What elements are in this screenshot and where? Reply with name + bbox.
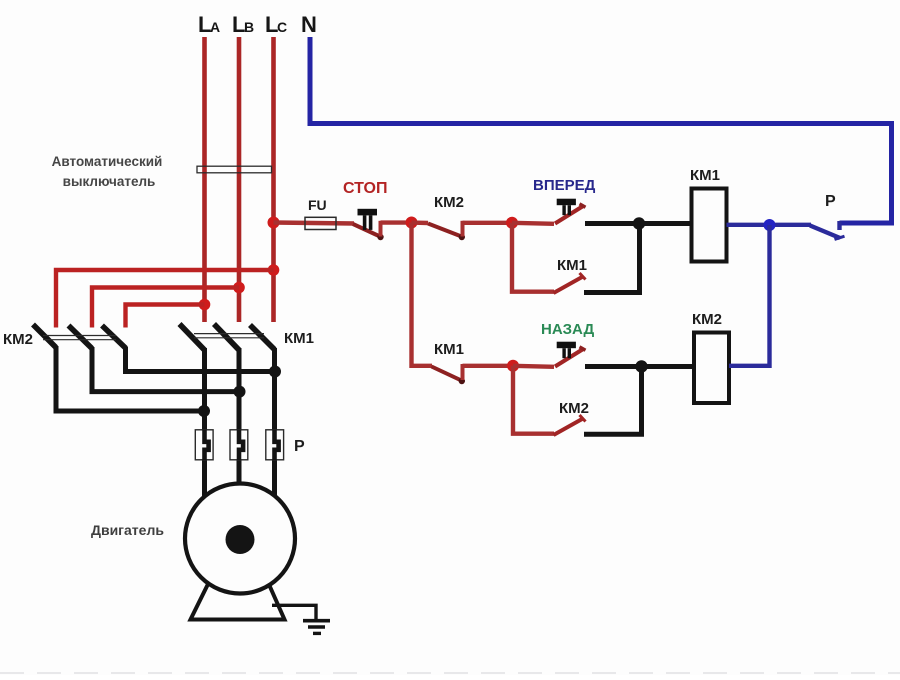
wire black vertical to node F — [639, 367, 644, 435]
wire СТОП to node A — [381, 220, 413, 224]
wire control feed — [274, 223, 355, 224]
wire bus1 Lc to КМ2 pole1 — [56, 270, 274, 328]
svg-text:ВПЕРЕД: ВПЕРЕД — [533, 177, 596, 194]
wire НАЗАД to КМ2 coil — [585, 364, 696, 369]
wire КМ2 pole2 output — [92, 347, 240, 392]
svg-text:СТОП: СТОП — [343, 180, 387, 197]
wire phase La — [202, 37, 207, 322]
contact КМ1 holding tip tick — [580, 273, 586, 280]
contact КМ1 NC blade — [432, 367, 462, 381]
wire motor line 1 — [202, 348, 207, 500]
label Lc — [265, 12, 287, 37]
wire drop node C to КМ2 holding — [513, 366, 554, 434]
contactor КМ1 pole1 blade — [180, 324, 205, 350]
svg-text:Двигатель: Двигатель — [91, 522, 164, 538]
node bus1 on Lc — [268, 264, 280, 276]
fuse FU — [305, 217, 336, 229]
svg-text:B: B — [244, 19, 254, 35]
node F (black junction) — [635, 360, 647, 372]
wire drop node A to НАЗАД branch — [412, 223, 433, 366]
svg-text:A: A — [210, 19, 220, 35]
ground wire — [272, 605, 316, 620]
contactor КМ1 pole2 blade — [214, 324, 239, 350]
wire bus2 Lb to КМ2 pole2 — [92, 288, 239, 328]
coil КМ1 — [692, 189, 727, 262]
button ВПЕРЕД plunger — [557, 199, 576, 216]
svg-text:P: P — [825, 193, 836, 210]
node Lc-control junction — [268, 217, 280, 229]
button СТОП (NC) blade — [353, 224, 380, 237]
svg-text:Автоматический: Автоматический — [52, 154, 163, 169]
coil КМ2 — [694, 333, 729, 404]
contact КМ1 holding (NO) blade — [554, 277, 584, 294]
wire motor line 2 — [237, 348, 242, 490]
node C — [507, 360, 519, 372]
motor M body — [185, 484, 295, 594]
button НАЗАД plunger — [557, 342, 576, 359]
node bus2 on Lb — [233, 282, 245, 294]
button СТОП plunger — [358, 209, 378, 230]
contact КМ2 holding tip tick — [580, 415, 586, 422]
contactor КМ2 linkage — [43, 336, 116, 340]
contact P tip tick — [835, 236, 845, 239]
motor M rotor dot — [226, 525, 255, 554]
svg-text:КМ2: КМ2 — [3, 331, 33, 348]
svg-text:C: C — [277, 19, 287, 35]
contact КМ2 holding (NO) blade — [554, 419, 584, 436]
label Lb — [232, 12, 254, 37]
wire neutral N — [310, 37, 892, 223]
svg-text:КМ2: КМ2 — [559, 400, 589, 417]
node B — [506, 217, 518, 229]
wire black vertical to node D — [637, 224, 642, 293]
wire КМ1 NC to node C — [463, 364, 515, 368]
button НАЗАД blade tip tick — [580, 347, 586, 350]
thermal relay P heater 2 — [230, 430, 248, 460]
contact КМ2 NC wire — [412, 220, 429, 225]
node motor line2 x КМ2 out — [234, 386, 246, 398]
wire КМ1 coil to node E (blue) — [727, 223, 812, 227]
svg-text:FU: FU — [308, 197, 327, 213]
contact КМ2 NC blade — [428, 224, 462, 237]
button ВПЕРЕД blade tip tick — [580, 204, 586, 207]
bottom faint dashed line — [0, 672, 900, 674]
svg-text:КМ1: КМ1 — [557, 257, 587, 274]
svg-text:N: N — [301, 12, 317, 37]
wire КМ2 holding black — [584, 432, 644, 437]
contact КМ2 NC tip — [459, 234, 465, 240]
button ВПЕРЕД (NO) blade — [555, 206, 584, 224]
wire motor line 3 — [272, 348, 277, 500]
wire КМ2 coil blue up — [729, 225, 770, 366]
button СТОП terminal stub — [379, 221, 383, 237]
svg-text:P: P — [294, 438, 305, 455]
wire КМ2 to node B — [463, 221, 514, 225]
contactor КМ1 linkage — [194, 334, 264, 338]
svg-text:КМ1: КМ1 — [434, 341, 464, 358]
svg-text:КМ2: КМ2 — [692, 311, 722, 328]
wire КМ2 pole3 output — [126, 347, 276, 372]
wire drop node B to КМ1 holding — [512, 223, 554, 292]
contact P stub — [837, 221, 841, 230]
contact P NC blade — [810, 226, 840, 239]
contact КМ1 NC tip — [459, 378, 465, 384]
wire КМ2 pole1 output — [56, 346, 204, 411]
label La — [198, 12, 220, 37]
wire phase Lb — [237, 37, 242, 322]
button ВПЕРЕД wire — [512, 223, 554, 224]
svg-text:КМ1: КМ1 — [284, 330, 314, 347]
button НАЗАД wire — [513, 366, 554, 367]
contactor КМ2 pole1 blade — [33, 325, 56, 348]
svg-text:КМ2: КМ2 — [434, 194, 464, 211]
button СТОП contact tip — [377, 234, 383, 240]
contactor КМ2 pole2 blade — [69, 326, 93, 349]
thermal relay P heater 1 — [195, 430, 213, 460]
contactor КМ1 pole3 blade — [250, 325, 275, 350]
node bus3 on La — [199, 299, 211, 311]
label Автоматический выключатель — [52, 154, 163, 189]
wire bus3 La to КМ2 pole3 — [126, 305, 205, 328]
circuit breaker (Автоматический выключатель) — [197, 166, 272, 173]
wire phase Lc — [271, 37, 276, 322]
wire КМ1 holding black — [584, 290, 642, 295]
ground symbol — [303, 621, 330, 634]
contactor КМ2 pole3 blade — [102, 326, 126, 349]
contact КМ1 NC stub — [461, 364, 465, 380]
node D (black junction) — [633, 217, 645, 229]
motor base — [191, 580, 285, 620]
contact КМ2 NC stub — [461, 221, 465, 237]
thermal relay P heater 3 — [266, 430, 284, 460]
node E (blue junction) — [764, 219, 776, 231]
node motor line1 x КМ2 out — [198, 405, 210, 417]
svg-text:выключатель: выключатель — [63, 174, 156, 189]
node A — [406, 217, 418, 229]
button НАЗАД (NO) blade — [555, 349, 584, 367]
wire ВПЕРЕД to КМ1 coil — [585, 221, 693, 226]
svg-text:КМ1: КМ1 — [690, 167, 720, 184]
svg-text:НАЗАД: НАЗАД — [541, 321, 594, 338]
node motor line3 x КМ2 out — [269, 366, 281, 378]
